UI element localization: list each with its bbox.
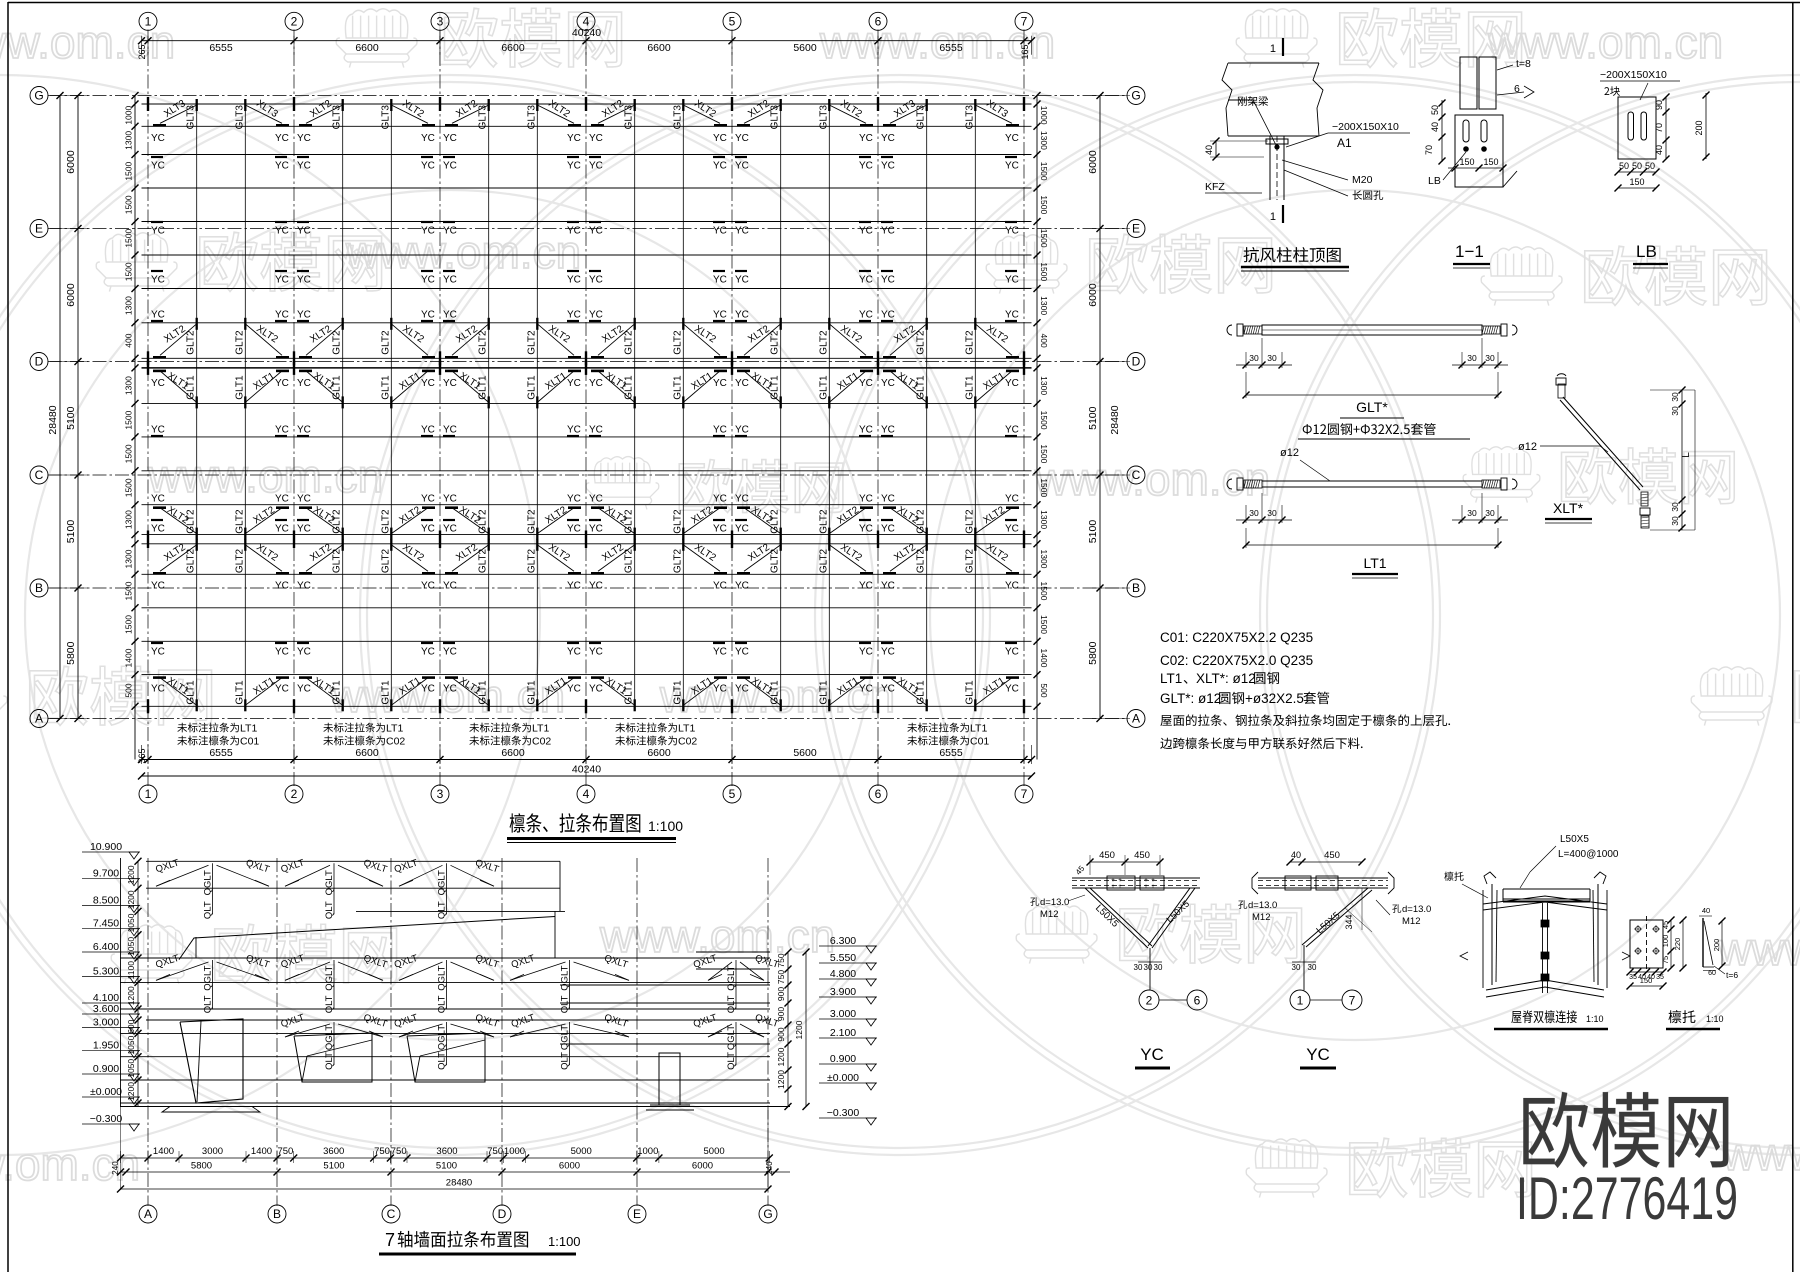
svg-text:30: 30 (1670, 516, 1680, 526)
svg-text:GLT2: GLT2 (672, 330, 683, 355)
diagonal brace XLT2 bay 5 left (744, 545, 781, 572)
svg-text:YC: YC (151, 226, 165, 237)
diagonal brace XLT2 bay 5 right (829, 105, 866, 123)
plan vertical axis 5 line (731, 30, 733, 787)
plan axis D right circle (1127, 353, 1145, 371)
svg-text:YC: YC (881, 581, 895, 592)
svg-text:5800: 5800 (191, 1161, 212, 1172)
svg-text:45: 45 (1661, 921, 1670, 929)
svg-text:1400: 1400 (153, 1146, 174, 1157)
wall brace mid rod QGLT (333, 960, 335, 1008)
svg-text:7: 7 (1021, 787, 1028, 801)
svg-text:GLT1: GLT1 (818, 680, 829, 705)
svg-text:1500: 1500 (124, 581, 134, 600)
svg-text:5100: 5100 (1087, 406, 1099, 430)
svg-text:1500: 1500 (124, 228, 134, 247)
svg-text:1500: 1500 (1039, 478, 1049, 497)
svg-text:1300: 1300 (1039, 376, 1049, 395)
plan vertical axis 1 line (147, 30, 149, 787)
svg-text:QGLT: QGLT (726, 1025, 737, 1050)
detail 抗风柱柱顶图 dim 40 (1215, 140, 1217, 158)
svg-text:YC: YC (1005, 494, 1019, 505)
svg-text:+: + (1151, 884, 1155, 890)
svg-text:GLT2: GLT2 (964, 548, 975, 573)
detail 抗风柱柱顶图 section mark 1 top (1282, 38, 1284, 56)
big watermark 欧模网 (1523, 1092, 1728, 1168)
svg-text:YC: YC (713, 494, 727, 505)
diagonal brace XLT1 bay 6 right (975, 678, 1012, 706)
svg-text:YC: YC (713, 226, 727, 237)
svg-text:GLT2: GLT2 (624, 509, 635, 534)
svg-text:YC: YC (589, 133, 603, 144)
ridge detail 檩托 label (1444, 872, 1463, 881)
svg-text:7: 7 (385, 1230, 395, 1250)
svg-text:6: 6 (875, 15, 882, 29)
svg-text:1:10: 1:10 (1706, 1014, 1724, 1024)
plan axis G left circle (30, 87, 48, 105)
anchor ticks bay 2 (299, 506, 312, 509)
svg-text:400: 400 (124, 333, 134, 347)
svg-text:YC: YC (297, 275, 311, 286)
svg-text:YC: YC (881, 647, 895, 658)
diagonal brace XLT2 bay 4 right (683, 508, 720, 534)
svg-text:2.100: 2.100 (830, 1027, 856, 1039)
svg-text:YC: YC (567, 524, 581, 535)
anchor ticks bay 5 (737, 356, 750, 359)
anchor ticks bay 6 (883, 676, 896, 679)
svg-text:YC: YC (443, 581, 457, 592)
svg-text:900: 900 (776, 1027, 786, 1041)
svg-text:QLT: QLT (324, 1052, 335, 1070)
diagonal brace XLT2 bay 3 right (537, 105, 574, 123)
svg-text:YC: YC (881, 161, 895, 172)
svg-text:GLT3: GLT3 (186, 105, 197, 130)
svg-text:C: C (1132, 468, 1141, 482)
svg-text:−200X150X10: −200X150X10 (1332, 121, 1399, 133)
svg-text:YC: YC (859, 524, 873, 535)
anchor ticks bay 2 (299, 572, 312, 575)
ridge detail top flanges (1483, 896, 1607, 904)
svg-text:8.500: 8.500 (93, 894, 119, 906)
svg-text:A: A (1132, 712, 1140, 726)
svg-text:GLT1: GLT1 (478, 375, 489, 400)
anchor ticks bay 5 (737, 506, 750, 509)
svg-text:28480: 28480 (446, 1178, 472, 1189)
svg-text:B: B (273, 1207, 281, 1221)
svg-text:YC: YC (713, 684, 727, 695)
detail 1-1 column section (1460, 57, 1477, 109)
plan left inner dimension chain (134, 96, 136, 760)
svg-text:6000: 6000 (559, 1161, 580, 1172)
svg-text:GLT2: GLT2 (234, 330, 245, 355)
svg-text:B: B (1132, 581, 1140, 595)
diagonal brace XLT2 bay 5 left (744, 324, 781, 356)
diagonal brace XLT2 bay 2 left (306, 324, 343, 356)
svg-text:GLT1: GLT1 (186, 375, 197, 400)
svg-text:YC: YC (421, 684, 435, 695)
svg-text:YC: YC (1005, 161, 1019, 172)
bold ticks at axis/eave intersections (148, 97, 1024, 713)
wall brace mid rod QGLT (333, 1022, 335, 1065)
wall brace QXLT bay 391-502 (399, 865, 443, 886)
svg-text:YC: YC (567, 161, 581, 172)
wall brace mid rod QGLT (569, 1022, 571, 1065)
svg-text:1200: 1200 (776, 1070, 786, 1089)
svg-text:6555: 6555 (209, 42, 233, 54)
diagonal brace XLT2 bay 1 left (160, 324, 197, 356)
plan axis B right circle (1127, 579, 1145, 597)
svg-text:YC: YC (151, 378, 165, 389)
detail 抗风柱柱顶图 beam (1228, 62, 1319, 64)
svg-text:1−1: 1−1 (1455, 242, 1484, 261)
svg-text:QLT: QLT (437, 995, 448, 1013)
svg-text:YC: YC (567, 226, 581, 237)
svg-text:30: 30 (1134, 963, 1143, 972)
svg-text:YC: YC (589, 378, 603, 389)
svg-text:6555: 6555 (939, 747, 963, 759)
svg-text:M12: M12 (1040, 909, 1058, 920)
svg-text:1000: 1000 (124, 105, 134, 124)
anchor ticks bay 1 (153, 676, 166, 679)
svg-text:LT1: LT1 (240, 723, 257, 735)
svg-text:30: 30 (1670, 392, 1680, 402)
svg-text:6600: 6600 (355, 42, 379, 54)
wall brace QXLT bay 148-277 (156, 962, 209, 980)
svg-text:GLT2: GLT2 (770, 548, 781, 573)
svg-text:3: 3 (437, 787, 444, 801)
svg-text:QLT: QLT (203, 901, 214, 919)
svg-text:0.900: 0.900 (830, 1053, 856, 1065)
ridge detail right purlin (1594, 872, 1606, 884)
svg-text:GLT3: GLT3 (478, 105, 489, 130)
svg-text:6600: 6600 (501, 42, 525, 54)
svg-text:GLT3: GLT3 (526, 105, 537, 130)
diagonal brace XLT1 bay 6 left (890, 678, 927, 706)
svg-text:7.450: 7.450 (93, 918, 119, 930)
LT1 dims (1245, 505, 1247, 523)
svg-text:YC: YC (1005, 425, 1019, 436)
svg-text:GLT2: GLT2 (186, 330, 197, 355)
svg-text:M12: M12 (1252, 912, 1270, 923)
plan left dimension chains (59, 96, 61, 719)
anchor ticks bay 1 (153, 356, 166, 359)
svg-text:YC: YC (859, 581, 873, 592)
svg-text:L50X5: L50X5 (1560, 834, 1589, 845)
svg-text:YC: YC (735, 524, 749, 535)
svg-text:+: + (1144, 884, 1148, 890)
svg-text:YC: YC (735, 684, 749, 695)
YC detail 1-7 bolt labels (1238, 900, 1247, 909)
svg-text:1050: 1050 (126, 1035, 136, 1054)
diagonal brace XLT1 bay 6 left (890, 371, 927, 403)
svg-text:3600: 3600 (323, 1146, 344, 1157)
svg-text:1300: 1300 (124, 549, 134, 568)
svg-text:150: 150 (1483, 157, 1498, 167)
svg-text:ø12: ø12 (1518, 441, 1537, 453)
svg-text:YC: YC (275, 161, 289, 172)
svg-text:50: 50 (1619, 161, 1629, 171)
plan vertical axis 7 line (1023, 30, 1025, 787)
svg-text:1000: 1000 (1039, 106, 1049, 125)
diagonal brace XLT2 bay 4 right (683, 545, 720, 572)
diagonal brace XLT2 bay 2 left (306, 508, 343, 534)
svg-text:75: 75 (1661, 956, 1670, 964)
plan axis G right circle (1127, 87, 1145, 105)
watermark tile row2 (96, 233, 177, 292)
svg-text:GLT2: GLT2 (526, 548, 537, 573)
diagonal brace XLT1 bay 2 right (391, 371, 428, 403)
anchor ticks bay 3 (445, 370, 458, 373)
svg-text:5600: 5600 (793, 747, 817, 759)
plan horizontal axis D line (48, 361, 1128, 363)
svg-text:d=13.0: d=13.0 (1040, 897, 1069, 908)
svg-text:YC: YC (1005, 310, 1019, 321)
anchor ticks bay 3 (445, 572, 458, 575)
svg-text:YC: YC (421, 647, 435, 658)
svg-text:1: 1 (1297, 994, 1304, 1008)
svg-text:YC: YC (1005, 684, 1019, 695)
svg-text:t=6: t=6 (1726, 970, 1738, 980)
svg-text:YC: YC (1140, 1045, 1164, 1064)
sheet border top (8, 2, 1800, 4)
svg-text:GLT2: GLT2 (964, 330, 975, 355)
svg-text:GLT3: GLT3 (624, 105, 635, 130)
svg-text:GLT2: GLT2 (916, 548, 927, 573)
diagonal brace XLT2 bay 5 right (829, 508, 866, 534)
svg-text:LT1: LT1 (1363, 555, 1386, 571)
diagonal brace XLT2 bay 4 left (598, 324, 635, 356)
plan top dimension line (142, 40, 1032, 42)
svg-text:YC: YC (881, 524, 895, 535)
svg-text:YC: YC (713, 425, 727, 436)
svg-text:YC: YC (1005, 581, 1019, 592)
diagonal brace XLT3 bay 1 right (245, 105, 282, 123)
plan axis 4 bottom circle (577, 785, 595, 803)
anchor ticks bay 3 (445, 676, 458, 679)
svg-text:QLT: QLT (324, 995, 335, 1013)
svg-text:±0.000: ±0.000 (90, 1086, 122, 1098)
svg-text:GLT2: GLT2 (624, 548, 635, 573)
svg-text:30: 30 (1670, 406, 1680, 416)
svg-text:LB: LB (1428, 175, 1441, 187)
elevation axis circles (139, 1205, 157, 1223)
svg-text:YC: YC (859, 226, 873, 237)
YC labels grid (151, 133, 1019, 695)
svg-text:YC: YC (151, 524, 165, 535)
svg-text:3.000: 3.000 (93, 1016, 119, 1028)
anchor ticks bay 2 (299, 676, 312, 679)
svg-text:YC: YC (881, 378, 895, 389)
svg-text:YC: YC (881, 133, 895, 144)
svg-text:M12: M12 (1402, 916, 1420, 927)
plan vertical axis 4 line (585, 30, 587, 787)
svg-text:900: 900 (776, 1007, 786, 1021)
svg-text:YC: YC (151, 494, 165, 505)
svg-text:1500: 1500 (124, 615, 134, 634)
svg-text:6: 6 (875, 787, 882, 801)
svg-text:5800: 5800 (1087, 641, 1099, 665)
diagonal brace XLT2 bay 3 right (537, 324, 574, 356)
wall brace QXLT bay 502-637 (510, 962, 566, 980)
svg-text:YC: YC (421, 275, 435, 286)
svg-text:1500: 1500 (1039, 262, 1049, 281)
plan axis 5 bottom circle (723, 785, 741, 803)
svg-text:1500: 1500 (124, 161, 134, 180)
detail 1-1 dims (1441, 100, 1443, 140)
watermark tile row4 (0, 667, 7, 726)
svg-text:A: A (35, 712, 43, 726)
svg-text:450: 450 (1099, 850, 1115, 861)
svg-text:3600: 3600 (436, 1146, 457, 1157)
svg-text:YC: YC (275, 226, 289, 237)
svg-text:5600: 5600 (793, 42, 817, 54)
svg-text:2: 2 (291, 787, 298, 801)
svg-text:1500: 1500 (124, 444, 134, 463)
diagonal brace XLT2 bay 6 left (890, 508, 927, 534)
diagonal brace XLT2 bay 4 left (598, 545, 635, 572)
svg-text:XLT*: ø12: XLT*: ø12 (1196, 671, 1256, 686)
svg-text:GLT2: GLT2 (770, 509, 781, 534)
svg-text:YC: YC (297, 684, 311, 695)
svg-text:1500: 1500 (124, 410, 134, 429)
svg-text:150: 150 (1629, 177, 1644, 187)
diagonal brace XLT1 bay 2 left (306, 678, 343, 706)
svg-text:QLT: QLT (203, 995, 214, 1013)
svg-text:YC: YC (567, 310, 581, 321)
anchor ticks bay 6 (883, 572, 896, 575)
GLT* rod drawing (1262, 325, 1482, 335)
diagonal brace XLT1 bay 4 left (598, 678, 635, 706)
diagonal brace XLT3 bay 6 right (975, 105, 1012, 123)
diagonal brace XLT1 bay 2 left (306, 371, 343, 403)
svg-text:GLT1: GLT1 (672, 680, 683, 705)
XLT* rod drawing (1560, 400, 1640, 490)
plan sag rod vertical lines (197, 104, 976, 706)
svg-text:YC: YC (735, 425, 749, 436)
svg-text:YC: YC (567, 133, 581, 144)
svg-text:YC: YC (859, 494, 873, 505)
anchor ticks bay 6 (883, 370, 896, 373)
svg-text:D: D (35, 355, 44, 369)
diagonal brace XLT3 bay 6 left (890, 105, 927, 123)
svg-text:3.000: 3.000 (830, 1008, 856, 1020)
svg-text:YC: YC (859, 310, 873, 321)
YC detail 1-7 beam (1258, 877, 1388, 879)
anchor ticks bay 3 (445, 356, 458, 359)
svg-text:165: 165 (1020, 44, 1030, 59)
diagonal brace XLT2 bay 5 left (744, 508, 781, 534)
svg-text:GLT1: GLT1 (672, 375, 683, 400)
svg-text:GLT1: GLT1 (624, 375, 635, 400)
YC detail 2-6 beam (1072, 877, 1200, 879)
svg-text:150: 150 (1640, 976, 1653, 985)
svg-text:YC: YC (151, 581, 165, 592)
wall brace QXLT bay 277-391 (285, 962, 330, 980)
diagonal brace XLT2 bay 4 right (683, 324, 720, 356)
YC detail 1-7 diagonal L50X5 (1302, 888, 1368, 945)
svg-text:YC: YC (443, 524, 457, 535)
svg-text:www.om.cn: www.om.cn (345, 226, 581, 278)
plan axis C left circle (30, 466, 48, 484)
svg-text:YC: YC (859, 133, 873, 144)
svg-text:30: 30 (1154, 963, 1163, 972)
svg-text:GLT2: GLT2 (818, 330, 829, 355)
anchor ticks bay 5 (737, 124, 750, 127)
diagonal brace XLT2 bay 3 right (537, 508, 574, 534)
svg-text:YC: YC (881, 226, 895, 237)
svg-text:YC: YC (275, 524, 289, 535)
plan axis E right circle (1127, 220, 1145, 238)
svg-text:240: 240 (765, 1161, 774, 1175)
diagonal brace XLT1 bay 4 right (683, 371, 720, 403)
svg-text:GLT2: GLT2 (380, 548, 391, 573)
svg-text:240: 240 (111, 1161, 120, 1175)
svg-text:1000: 1000 (637, 1146, 658, 1157)
svg-text:LB: LB (1636, 242, 1657, 261)
svg-text:30: 30 (1249, 353, 1259, 363)
svg-text:GLT2: GLT2 (818, 548, 829, 573)
svg-text:60: 60 (1708, 970, 1716, 977)
svg-text:YC: YC (443, 647, 457, 658)
svg-text:1500: 1500 (1039, 444, 1049, 463)
plan axis 1 top circle (139, 12, 157, 30)
svg-text:YC: YC (735, 161, 749, 172)
svg-text:d=13.0: d=13.0 (1402, 904, 1431, 915)
svg-text:C02: C02 (678, 736, 697, 748)
svg-text:30: 30 (1267, 508, 1277, 518)
detail title 抗风柱柱顶图 (1244, 247, 1341, 262)
svg-text:30: 30 (1249, 508, 1259, 518)
diagonal brace XLT2 bay 4 left (598, 105, 635, 123)
svg-text:GLT2: GLT2 (234, 509, 245, 534)
plan horizontal axis B line (48, 587, 1128, 589)
diagonal brace XLT2 bay 2 right (391, 324, 428, 356)
diagonal brace XLT1 bay 5 left (744, 678, 781, 706)
svg-text:GLT2: GLT2 (964, 509, 975, 534)
svg-text:5100: 5100 (323, 1161, 344, 1172)
svg-text:YC: YC (735, 378, 749, 389)
svg-text:GLT2: GLT2 (478, 548, 489, 573)
elevation vertical extension lines (120, 1107, 122, 1191)
diagonal brace XLT1 bay 3 left (452, 371, 489, 403)
svg-text:−0.300: −0.300 (90, 1113, 123, 1125)
svg-text:YC: YC (297, 524, 311, 535)
svg-text:YC: YC (421, 226, 435, 237)
svg-text:C02: C02 (532, 736, 551, 748)
diagonal brace XLT1 bay 3 right (537, 678, 574, 706)
GLT* rod dims (1245, 352, 1247, 368)
svg-text:YC: YC (275, 275, 289, 286)
svg-text:C02: C220X75X2.0 Q235: C02: C220X75X2.0 Q235 (1160, 653, 1313, 668)
svg-text:±0.000: ±0.000 (827, 1072, 859, 1084)
svg-text:YC: YC (443, 161, 457, 172)
svg-text:LT1: LT1 (678, 723, 695, 735)
svg-text:www.om.cn: www.om.cn (599, 910, 835, 962)
svg-text:90: 90 (1654, 100, 1664, 110)
svg-text:GLT1: GLT1 (964, 375, 975, 400)
svg-text:GLT2: GLT2 (672, 509, 683, 534)
svg-text:QGLT: QGLT (324, 965, 335, 990)
svg-text:QLT: QLT (726, 1052, 737, 1070)
svg-text:YC: YC (297, 494, 311, 505)
anchor ticks bay 4 (591, 356, 604, 359)
svg-text:1200: 1200 (794, 1020, 804, 1039)
diagonal brace XLT2 bay 6 right (975, 545, 1012, 572)
svg-text:9.700: 9.700 (93, 868, 119, 880)
svg-text:YC: YC (567, 684, 581, 695)
svg-text:YC: YC (589, 275, 603, 286)
svg-text:750: 750 (277, 1146, 293, 1157)
